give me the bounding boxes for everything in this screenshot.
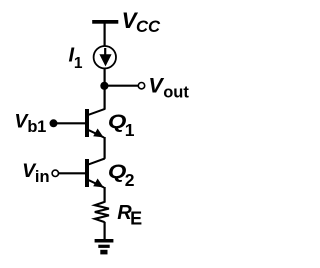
wire Q1 emitter to Q2 collector — [103, 137, 105, 159]
svg-text:1: 1 — [125, 120, 135, 140]
label Vout — [148, 74, 189, 102]
svg-text:in: in — [35, 168, 50, 186]
svg-text:b1: b1 — [27, 118, 46, 136]
wire node to Q1 collector — [103, 85, 105, 110]
wire current source to output node — [103, 69, 105, 87]
wire VCC bar to current source — [103, 24, 105, 47]
transistor Q1 — [85, 109, 105, 138]
transistor Q2 — [85, 159, 105, 188]
wire Q2 emitter to resistor RE — [103, 187, 105, 203]
terminal Vout open circle — [138, 83, 144, 89]
terminal Vin open circle — [52, 170, 58, 176]
svg-text:1: 1 — [74, 55, 83, 72]
svg-text:V: V — [148, 74, 164, 98]
ground — [95, 239, 114, 254]
svg-text:out: out — [163, 83, 189, 101]
label Vin — [22, 160, 49, 186]
label VCC — [122, 8, 161, 36]
svg-text:E: E — [130, 208, 142, 228]
junction dot output node — [100, 82, 108, 90]
label Q2 — [108, 161, 135, 190]
wire resistor to ground — [103, 222, 105, 240]
power VCC supply bar — [92, 20, 118, 24]
wire Vb1 to Q1 base — [54, 122, 86, 124]
wire node to Vout terminal — [104, 85, 138, 87]
label RE — [117, 202, 142, 228]
svg-text:2: 2 — [125, 170, 135, 190]
label Vb1 — [14, 111, 46, 136]
svg-text:CC: CC — [136, 17, 161, 36]
resistor RE zigzag — [95, 202, 109, 222]
label I1 — [69, 44, 83, 72]
label Q1 — [108, 111, 135, 140]
current source I1 — [94, 46, 116, 68]
terminal Vb1 solid dot — [50, 119, 58, 127]
wire Vin to Q2 base — [59, 172, 86, 174]
